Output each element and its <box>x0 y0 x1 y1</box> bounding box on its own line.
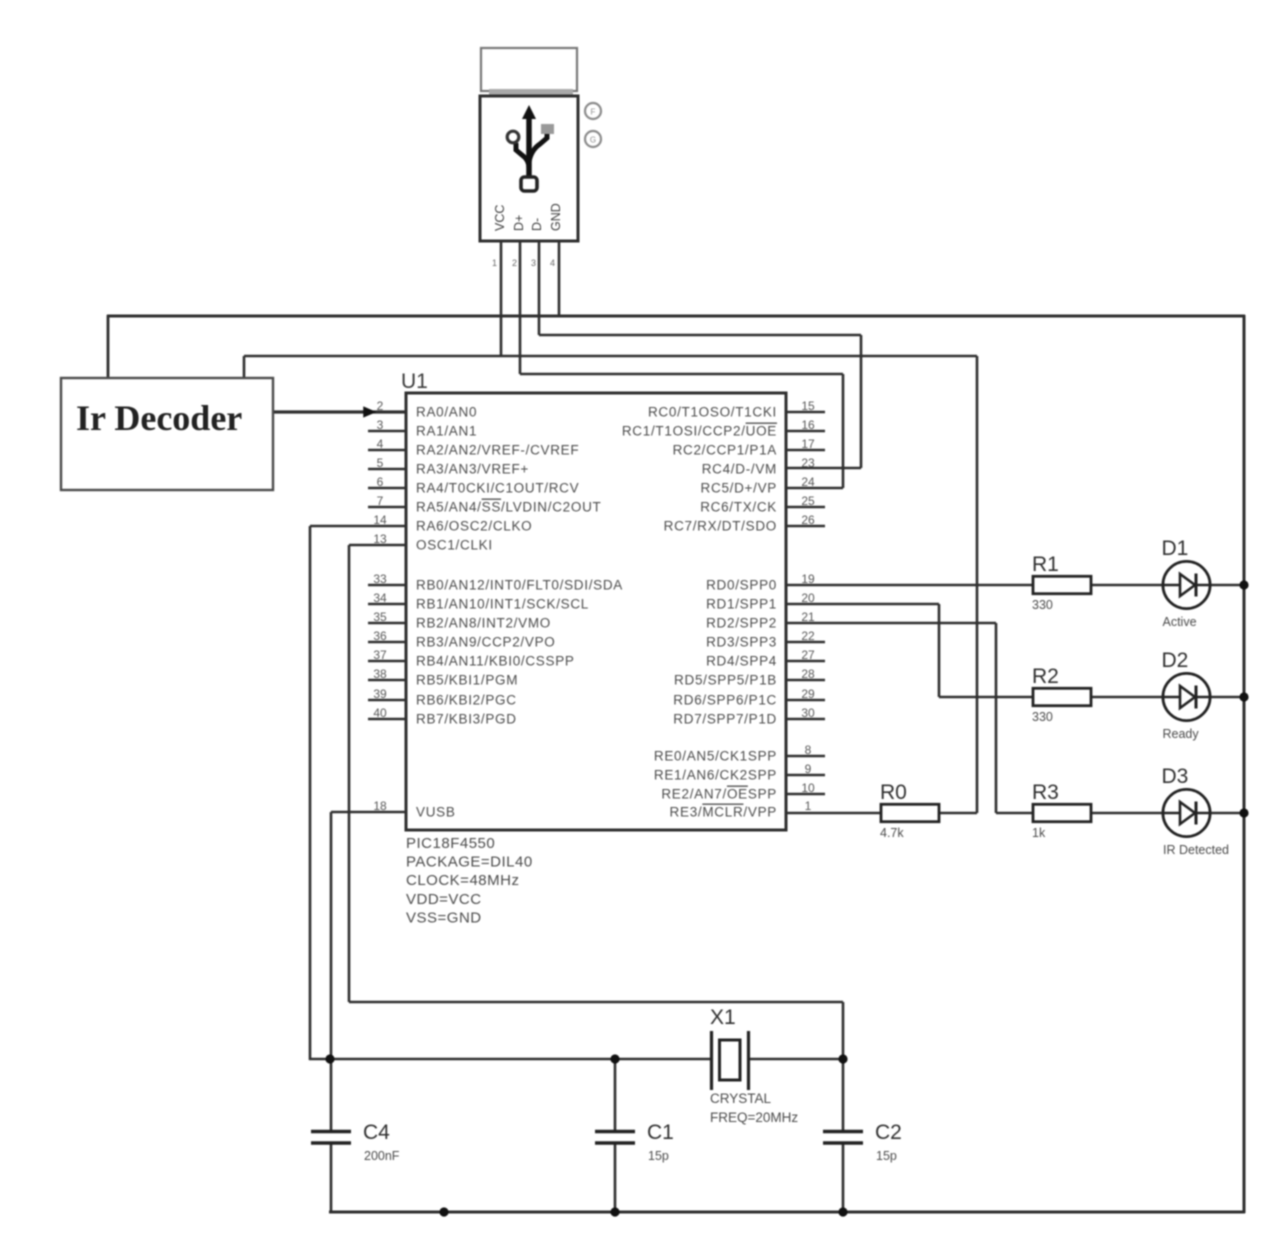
svg-text:RE1/AN6/CK2SPP: RE1/AN6/CK2SPP <box>654 768 777 783</box>
svg-text:R2: R2 <box>1032 665 1059 688</box>
svg-text:RB6/KBI2/PGC: RB6/KBI2/PGC <box>416 693 517 708</box>
svg-text:RC2/CCP1/P1A: RC2/CCP1/P1A <box>673 443 777 458</box>
svg-text:C2: C2 <box>875 1121 902 1144</box>
svg-text:RA0/AN0: RA0/AN0 <box>416 405 477 420</box>
svg-text:5: 5 <box>377 456 384 470</box>
svg-text:18: 18 <box>373 799 387 813</box>
svg-text:15p: 15p <box>876 1149 897 1163</box>
svg-text:OSC1/CLKI: OSC1/CLKI <box>416 538 493 553</box>
svg-text:Ir Decoder: Ir Decoder <box>76 398 242 438</box>
svg-text:4: 4 <box>377 437 384 451</box>
svg-text:RC7/RX/DT/SDO: RC7/RX/DT/SDO <box>664 519 777 534</box>
svg-text:15p: 15p <box>648 1149 669 1163</box>
svg-text:RA6/OSC2/CLKO: RA6/OSC2/CLKO <box>416 519 532 534</box>
svg-text:9: 9 <box>805 762 812 776</box>
svg-text:22: 22 <box>801 629 815 643</box>
svg-text:3: 3 <box>377 418 384 432</box>
svg-text:CLOCK=48MHz: CLOCK=48MHz <box>406 872 519 889</box>
svg-text:39: 39 <box>373 687 387 701</box>
svg-text:X1: X1 <box>710 1006 736 1029</box>
svg-text:27: 27 <box>801 648 815 662</box>
svg-text:RA4/T0CKI/C1OUT/RCV: RA4/T0CKI/C1OUT/RCV <box>416 481 579 496</box>
svg-text:33: 33 <box>373 572 387 586</box>
svg-text:RC5/D+/VP: RC5/D+/VP <box>701 481 777 496</box>
svg-text:1: 1 <box>492 258 497 268</box>
svg-text:D+: D+ <box>512 215 526 231</box>
svg-text:R1: R1 <box>1032 553 1059 576</box>
svg-text:1: 1 <box>805 799 812 813</box>
svg-text:4: 4 <box>550 258 555 268</box>
svg-text:25: 25 <box>801 494 815 508</box>
svg-text:RC4/D-/VM: RC4/D-/VM <box>702 462 777 477</box>
svg-text:23: 23 <box>801 456 815 470</box>
svg-text:40: 40 <box>373 706 387 720</box>
svg-text:20: 20 <box>801 591 815 605</box>
svg-text:D2: D2 <box>1162 649 1189 672</box>
svg-text:28: 28 <box>801 667 815 681</box>
svg-text:19: 19 <box>801 572 815 586</box>
svg-text:37: 37 <box>373 648 387 662</box>
svg-text:D1: D1 <box>1162 537 1189 560</box>
svg-text:CRYSTAL: CRYSTAL <box>710 1091 772 1106</box>
svg-text:RB2/AN8/INT2/VMO: RB2/AN8/INT2/VMO <box>416 616 551 631</box>
svg-text:RC1/T1OSI/CCP2/UOE: RC1/T1OSI/CCP2/UOE <box>622 424 777 439</box>
svg-text:RE3/MCLR/VPP: RE3/MCLR/VPP <box>670 805 777 820</box>
svg-text:RB7/KBI3/PGD: RB7/KBI3/PGD <box>416 712 517 727</box>
svg-text:29: 29 <box>801 687 815 701</box>
svg-text:3: 3 <box>531 258 536 268</box>
svg-text:Ready: Ready <box>1163 727 1200 741</box>
svg-text:1k: 1k <box>1032 826 1046 840</box>
svg-text:FREQ=20MHz: FREQ=20MHz <box>710 1110 798 1125</box>
svg-text:F: F <box>591 108 596 117</box>
svg-text:RD6/SPP6/P1C: RD6/SPP6/P1C <box>673 693 777 708</box>
svg-text:Active: Active <box>1163 615 1197 629</box>
svg-text:RA3/AN3/VREF+: RA3/AN3/VREF+ <box>416 462 529 477</box>
svg-text:R0: R0 <box>880 781 907 804</box>
svg-text:34: 34 <box>373 591 387 605</box>
svg-text:30: 30 <box>801 706 815 720</box>
svg-text:7: 7 <box>377 494 384 508</box>
svg-text:G: G <box>590 136 596 145</box>
svg-text:RA5/AN4/SS/LVDIN/C2OUT: RA5/AN4/SS/LVDIN/C2OUT <box>416 500 601 515</box>
svg-text:IR Detected: IR Detected <box>1163 843 1229 857</box>
svg-text:RE2/AN7/OESPP: RE2/AN7/OESPP <box>661 787 777 802</box>
svg-text:RD1/SPP1: RD1/SPP1 <box>706 597 777 612</box>
svg-text:C1: C1 <box>647 1121 674 1144</box>
svg-text:10: 10 <box>801 781 815 795</box>
svg-text:16: 16 <box>801 418 815 432</box>
svg-text:14: 14 <box>373 513 387 527</box>
svg-text:VDD=VCC: VDD=VCC <box>406 891 482 908</box>
svg-text:6: 6 <box>377 475 384 489</box>
svg-text:RD4/SPP4: RD4/SPP4 <box>706 654 777 669</box>
svg-text:24: 24 <box>801 475 815 489</box>
svg-text:38: 38 <box>373 667 387 681</box>
svg-text:13: 13 <box>373 532 387 546</box>
svg-text:RD5/SPP5/P1B: RD5/SPP5/P1B <box>674 673 777 688</box>
svg-text:RD2/SPP2: RD2/SPP2 <box>706 616 777 631</box>
svg-text:RB5/KBI1/PGM: RB5/KBI1/PGM <box>416 673 518 688</box>
svg-text:36: 36 <box>373 629 387 643</box>
svg-text:35: 35 <box>373 610 387 624</box>
svg-text:RB4/AN11/KBI0/CSSPP: RB4/AN11/KBI0/CSSPP <box>416 654 575 669</box>
svg-text:330: 330 <box>1032 598 1053 612</box>
svg-text:VSS=GND: VSS=GND <box>406 909 482 926</box>
svg-text:VCC: VCC <box>493 205 507 231</box>
svg-text:2: 2 <box>377 399 384 413</box>
svg-text:21: 21 <box>801 610 815 624</box>
svg-text:PIC18F4550: PIC18F4550 <box>406 835 495 852</box>
svg-text:D3: D3 <box>1162 765 1189 788</box>
svg-text:RB1/AN10/INT1/SCK/SCL: RB1/AN10/INT1/SCK/SCL <box>416 597 589 612</box>
svg-text:8: 8 <box>805 743 812 757</box>
svg-text:17: 17 <box>801 437 815 451</box>
svg-text:D-: D- <box>530 218 544 231</box>
svg-text:RD0/SPP0: RD0/SPP0 <box>706 578 777 593</box>
svg-text:RD7/SPP7/P1D: RD7/SPP7/P1D <box>673 712 777 727</box>
svg-text:RA1/AN1: RA1/AN1 <box>416 424 477 439</box>
svg-text:PACKAGE=DIL40: PACKAGE=DIL40 <box>406 854 533 871</box>
svg-text:RE0/AN5/CK1SPP: RE0/AN5/CK1SPP <box>654 749 777 764</box>
svg-text:4.7k: 4.7k <box>880 826 904 840</box>
svg-text:R3: R3 <box>1032 781 1059 804</box>
svg-text:26: 26 <box>801 513 815 527</box>
svg-text:RB0/AN12/INT0/FLT0/SDI/SDA: RB0/AN12/INT0/FLT0/SDI/SDA <box>416 578 623 593</box>
svg-text:VUSB: VUSB <box>416 805 456 820</box>
svg-text:U1: U1 <box>401 370 428 393</box>
svg-text:200nF: 200nF <box>364 1149 400 1163</box>
svg-text:2: 2 <box>512 258 517 268</box>
svg-text:C4: C4 <box>363 1121 390 1144</box>
svg-text:15: 15 <box>801 399 815 413</box>
svg-text:RB3/AN9/CCP2/VPO: RB3/AN9/CCP2/VPO <box>416 635 556 650</box>
svg-text:RC0/T1OSO/T1CKI: RC0/T1OSO/T1CKI <box>648 405 777 420</box>
svg-text:330: 330 <box>1032 710 1053 724</box>
svg-text:GND: GND <box>549 203 563 231</box>
svg-text:RA2/AN2/VREF-/CVREF: RA2/AN2/VREF-/CVREF <box>416 443 579 458</box>
svg-text:RC6/TX/CK: RC6/TX/CK <box>700 500 777 515</box>
svg-text:RD3/SPP3: RD3/SPP3 <box>706 635 777 650</box>
